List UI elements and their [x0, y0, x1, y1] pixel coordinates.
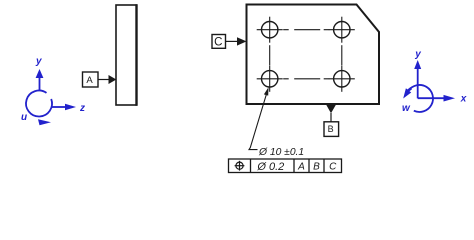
svg-text:A: A — [297, 162, 305, 173]
datum A box — [83, 72, 99, 87]
side view plate right edge — [135, 4, 137, 106]
axis y (left triad) — [39, 76, 41, 90]
hole bottom-right — [329, 66, 355, 92]
arrowhead u (left triad) — [38, 119, 51, 125]
arrowhead w (right triad) — [403, 88, 411, 98]
center line top row — [283, 29, 329, 31]
axis x (right triad) — [418, 97, 445, 99]
svg-text:x: x — [460, 94, 467, 105]
right coordinate triad — [408, 67, 445, 112]
leader arrowhead — [264, 87, 269, 95]
svg-text:B: B — [328, 124, 334, 134]
datum C box — [212, 35, 226, 49]
arrowhead y (left triad) — [36, 69, 44, 78]
leader to hole — [249, 89, 268, 150]
svg-text:z: z — [79, 103, 85, 114]
svg-text:Ø 10 ±0.1: Ø 10 ±0.1 — [258, 147, 304, 158]
rotation arc w — [408, 85, 433, 112]
svg-text:C: C — [329, 162, 337, 173]
arrowhead x (right triad) — [444, 95, 456, 102]
arrowhead y (right triad) — [414, 60, 421, 69]
svg-text:u: u — [21, 112, 27, 123]
svg-text:C: C — [214, 36, 222, 48]
datum C leader — [226, 40, 239, 42]
hole bottom-left — [257, 66, 283, 92]
center line left column — [269, 45, 271, 65]
hole top-left — [257, 17, 283, 43]
svg-text:y: y — [35, 56, 42, 67]
side view plate — [116, 5, 137, 105]
svg-text:B: B — [313, 162, 320, 173]
svg-text:Ø 0.2: Ø 0.2 — [256, 161, 284, 173]
left coordinate triad — [26, 76, 67, 117]
position symbol — [235, 161, 245, 171]
svg-text:w: w — [402, 103, 411, 114]
datum C triangle — [237, 37, 247, 45]
datum B leader — [330, 113, 332, 122]
datum A leader — [98, 79, 109, 81]
feature control frame — [229, 159, 342, 173]
front view plate — [247, 5, 380, 105]
arrow tail w — [407, 88, 411, 91]
svg-text:A: A — [86, 75, 93, 86]
center line right column — [341, 45, 343, 65]
center line bottom row — [283, 78, 329, 80]
hole top-right — [329, 17, 355, 43]
datum A triangle — [109, 75, 117, 84]
axis z (left triad) — [51, 106, 67, 108]
rotation arc u — [26, 91, 52, 117]
axis y (right triad) — [417, 67, 419, 98]
svg-text:y: y — [414, 49, 421, 60]
datum B box — [324, 122, 339, 137]
datum B triangle — [326, 105, 336, 113]
arrowhead z (left triad) — [65, 104, 76, 111]
